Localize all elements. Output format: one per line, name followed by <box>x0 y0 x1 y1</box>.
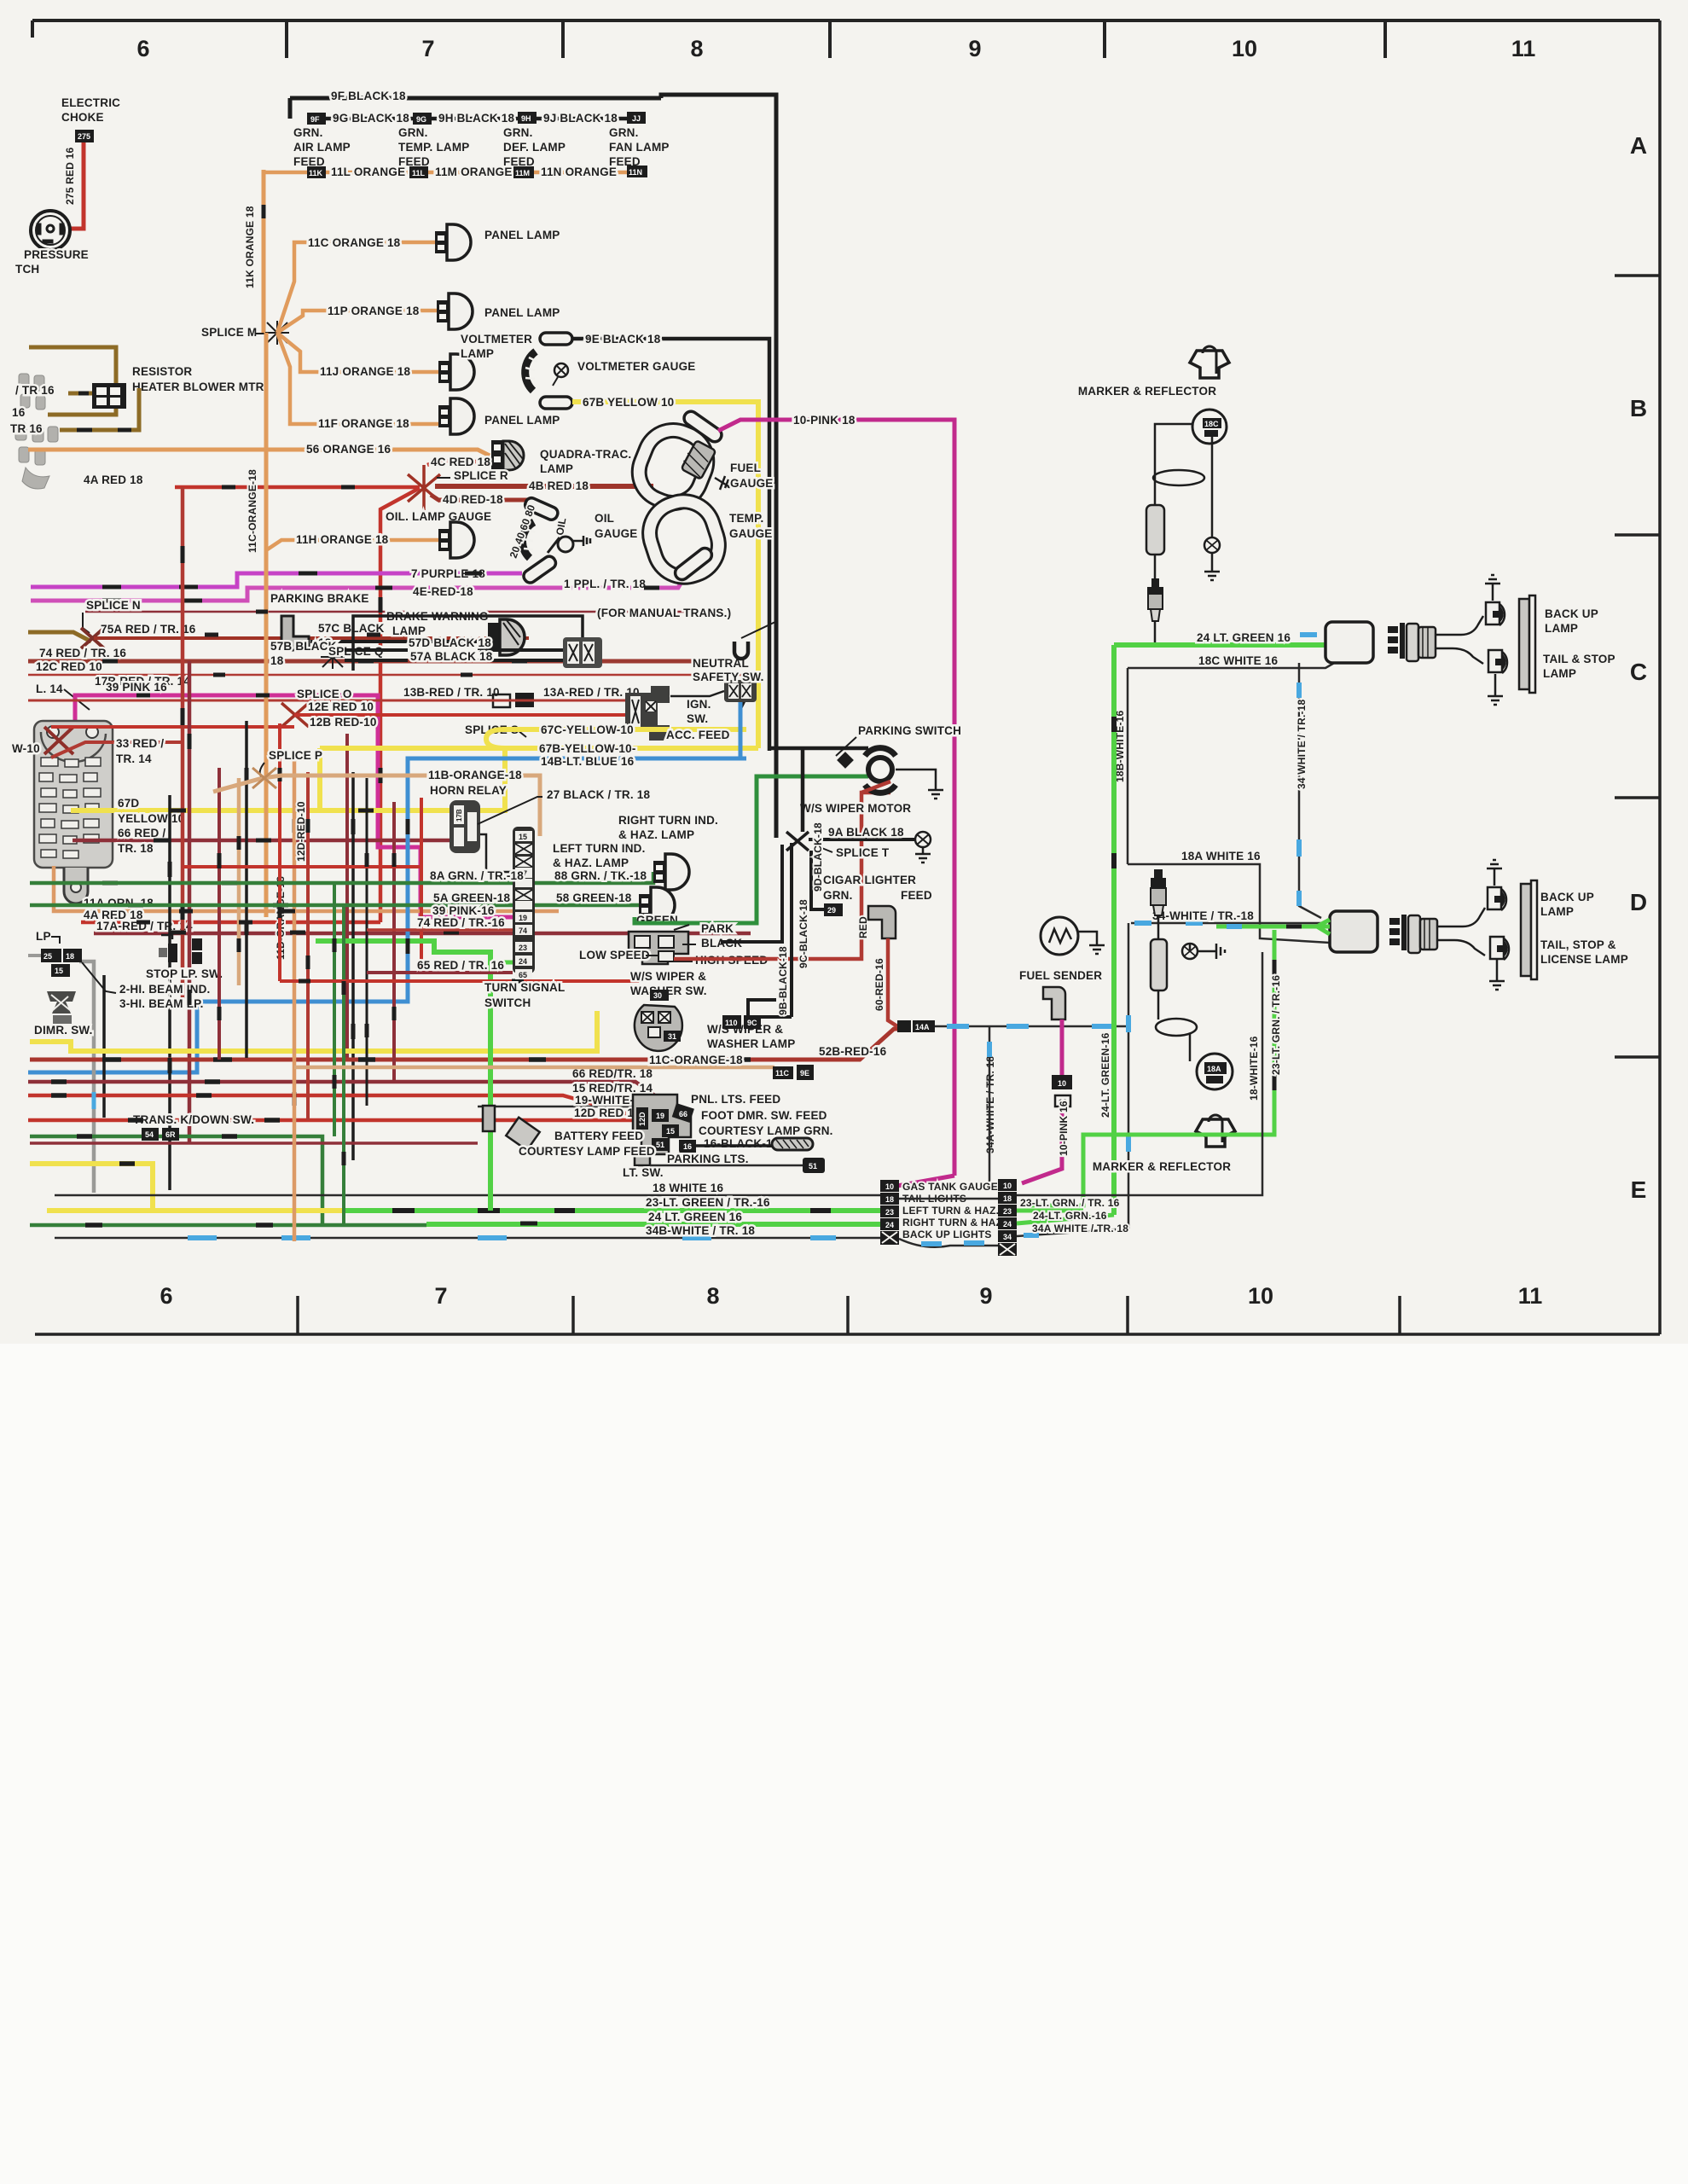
svg-text:LAMP: LAMP <box>1543 667 1576 680</box>
svg-text:8: 8 <box>706 1283 719 1309</box>
connector 18C in lamp <box>1203 418 1221 428</box>
svg-text:TAIL, STOP &: TAIL, STOP & <box>1540 938 1616 951</box>
svg-text:DEF. LAMP: DEF. LAMP <box>503 141 566 154</box>
voltmeter capsule 2 <box>540 397 572 409</box>
row C ground bottom <box>1494 674 1497 689</box>
svg-text:66 RED /: 66 RED / <box>118 827 165 839</box>
row C plug body <box>1407 624 1418 661</box>
wire red vertical x328 <box>278 723 281 981</box>
svg-text:11C: 11C <box>775 1069 790 1077</box>
svg-text:4B RED 18: 4B RED 18 <box>529 479 589 492</box>
svg-text:W-10: W-10 <box>12 742 40 755</box>
connector 9E <box>797 1065 814 1080</box>
wire marker right branch <box>1211 437 1214 537</box>
parking switch motor symbol <box>865 748 896 793</box>
connector 11L <box>409 166 428 178</box>
svg-text:HEATER BLOWER MTR.: HEATER BLOWER MTR. <box>132 380 268 393</box>
svg-text:PANEL LAMP: PANEL LAMP <box>484 229 560 241</box>
svg-text:275: 275 <box>78 132 90 141</box>
svg-text:18 WHITE 16: 18 WHITE 16 <box>653 1182 724 1194</box>
svg-text:OIL. LAMP GAUGE: OIL. LAMP GAUGE <box>386 510 491 523</box>
right tick D/E <box>1615 1055 1660 1059</box>
svg-text:OIL: OIL <box>595 512 614 525</box>
svg-text:8: 8 <box>690 36 703 61</box>
svg-text:67C-YELLOW-10: 67C-YELLOW-10 <box>541 723 634 736</box>
svg-text:FEED: FEED <box>293 155 325 168</box>
svg-text:33 RED /: 33 RED / <box>116 737 164 750</box>
svg-text:23-LT. GRN. / TR. 16: 23-LT. GRN. / TR. 16 <box>1020 1197 1120 1209</box>
svg-text:74: 74 <box>519 926 527 935</box>
gas tank gauge circle 18A <box>1197 1054 1233 1089</box>
row D ground top <box>1494 875 1496 886</box>
svg-text:D: D <box>1630 889 1647 915</box>
svg-text:BACK UP: BACK UP <box>1545 607 1598 620</box>
fusible link X on fuse panel <box>44 727 73 754</box>
horn relay <box>450 800 480 853</box>
svg-text:13A-RED / TR. 10: 13A-RED / TR. 10 <box>543 686 640 699</box>
right connector stack <box>998 1179 1017 1256</box>
wire 23 lt green tr 16 E row <box>345 1208 882 1213</box>
svg-text:YELLOW 10: YELLOW 10 <box>118 812 184 825</box>
manual trans fork <box>734 642 748 659</box>
row D bracket plate <box>1521 884 1531 976</box>
wire 74 red tr 16 <box>28 659 708 664</box>
connector 9G <box>413 113 432 125</box>
blue mark near connector C <box>1300 632 1317 637</box>
svg-text:9: 9 <box>968 36 981 61</box>
oil gauge ground <box>573 536 590 546</box>
svg-text:COURTESY LAMP FEED: COURTESY LAMP FEED <box>519 1145 655 1158</box>
wire 9F black 18 top run <box>290 95 776 838</box>
svg-text:& HAZ. LAMP: & HAZ. LAMP <box>618 828 694 841</box>
wire maroon vertical x257 <box>218 768 221 1060</box>
wire 57C black 18 <box>310 640 488 643</box>
row C plug prongs <box>1388 623 1405 659</box>
wire red horizontal y1016 <box>183 865 421 868</box>
wire 67D yellow 10 <box>71 748 505 810</box>
wire green park run <box>635 776 868 923</box>
svg-text:10: 10 <box>1248 1283 1273 1309</box>
connector box 13 small 1 <box>493 694 510 707</box>
splice P x <box>252 768 276 788</box>
svg-text:SPLICE T: SPLICE T <box>836 846 890 859</box>
wire 4B red 18 <box>435 484 653 489</box>
svg-text:12D-RED-10: 12D-RED-10 <box>295 801 307 862</box>
splice O <box>281 703 309 727</box>
wire red vertical 12D x361 <box>306 772 310 1120</box>
svg-text:LP: LP <box>36 930 51 943</box>
svg-text:COURTESY LAMP GRN.: COURTESY LAMP GRN. <box>699 1124 833 1137</box>
row D wires to lamps <box>1437 908 1485 926</box>
ignition switch <box>625 686 670 741</box>
svg-text:9C: 9C <box>747 1019 757 1027</box>
svg-text:11P ORANGE 18: 11P ORANGE 18 <box>328 305 420 317</box>
wire 23 lt grn tr 16 stub <box>1017 1209 1083 1213</box>
svg-text:15: 15 <box>519 833 527 841</box>
gas sender small circle <box>1182 944 1198 959</box>
wire 4C red 18 <box>427 462 490 465</box>
wire 57A black 18 <box>345 659 563 662</box>
wire 34A white stub <box>1017 1228 1128 1236</box>
svg-text:23-LT. GREEN / TR.-16: 23-LT. GREEN / TR.-16 <box>646 1196 770 1209</box>
svg-text:11: 11 <box>1518 1283 1543 1309</box>
connector 11K <box>307 166 326 178</box>
svg-text:GAUGE: GAUGE <box>595 527 638 540</box>
wire brown stub 1 <box>68 392 92 396</box>
svg-text:57B BLACK: 57B BLACK <box>270 640 337 653</box>
svg-text:15: 15 <box>666 1127 675 1136</box>
wire black vertical x289 <box>245 721 248 1058</box>
svg-text:9H BLACK 18: 9H BLACK 18 <box>438 112 515 125</box>
light switch assembly <box>483 1095 691 1165</box>
svg-text:54: 54 <box>145 1130 154 1139</box>
svg-text:DIMR. SW.: DIMR. SW. <box>34 1024 93 1037</box>
extra dash marks verticals <box>219 768 394 1165</box>
connector 12D rotated <box>636 1107 648 1130</box>
svg-text:FUEL: FUEL <box>730 462 761 474</box>
svg-text:HORN RELAY: HORN RELAY <box>430 784 507 797</box>
voltmeter gauge arc <box>525 351 536 391</box>
svg-text:11F ORANGE 18: 11F ORANGE 18 <box>318 417 409 430</box>
svg-text:TR 16: TR 16 <box>10 422 43 435</box>
top tick x1295 <box>1103 20 1106 58</box>
svg-text:SPLICE O: SPLICE O <box>297 688 352 700</box>
wire 24 lt green 16 row C <box>1114 642 1325 648</box>
wire 4A red 18 lower <box>81 921 380 925</box>
dash marks bottom left wires <box>51 1060 751 1225</box>
svg-text:7: 7 <box>421 36 434 61</box>
svg-text:SPLICE N: SPLICE N <box>86 599 141 612</box>
svg-text:15 RED/TR. 14: 15 RED/TR. 14 <box>572 1082 653 1095</box>
panel lamp 1 <box>435 224 471 260</box>
wire 17A red tr 14 <box>94 932 751 936</box>
wire 4D red 18 <box>431 495 528 500</box>
svg-text:6R: 6R <box>165 1130 176 1139</box>
parking brake symbol <box>281 616 309 650</box>
panel lamp 3 <box>438 398 474 434</box>
bottom tick x1641 <box>1398 1296 1401 1334</box>
top tick x660 <box>561 20 565 58</box>
svg-text:LAMP: LAMP <box>540 462 573 475</box>
wire 11H orange 18 <box>266 540 438 550</box>
svg-text:12C RED 10: 12C RED 10 <box>36 660 102 673</box>
wire red high speed <box>674 793 890 959</box>
wire 9A black 18 <box>809 838 914 841</box>
svg-text:57A BLACK 18: 57A BLACK 18 <box>410 650 493 663</box>
svg-text:10: 10 <box>885 1182 894 1191</box>
wire yellow bottom left pair <box>30 1011 597 1051</box>
svg-text:9B-BLACK-18: 9B-BLACK-18 <box>777 946 789 1015</box>
marker bulb plug <box>1147 578 1163 594</box>
wire black 9B vertical <box>753 843 792 1017</box>
svg-text:19: 19 <box>519 914 527 922</box>
wire 66 red tr 18 upper <box>73 839 478 843</box>
svg-text:12E RED 10: 12E RED 10 <box>308 700 374 713</box>
panel lamp voltmeter lamp <box>438 354 474 390</box>
svg-text:19: 19 <box>656 1112 664 1120</box>
svg-text:B: B <box>1630 395 1647 421</box>
wire 9G black 18 <box>326 117 414 121</box>
connector 16 <box>679 1140 696 1153</box>
svg-text:18: 18 <box>66 952 74 961</box>
wire 12D red 10 <box>28 1118 639 1123</box>
row D ground bottom <box>1496 959 1499 974</box>
oil gauge lamp capsule top <box>523 496 560 521</box>
svg-text:GRN.: GRN. <box>293 126 323 139</box>
oil gauge arc <box>523 522 534 558</box>
svg-text:TCH: TCH <box>15 263 39 276</box>
svg-text:110: 110 <box>725 1019 738 1027</box>
wire 11C orange 18 bottom row <box>294 1066 774 1070</box>
wire 19 white 16 <box>478 1106 654 1108</box>
connector 15 <box>662 1124 679 1137</box>
marker & reflector 2 clamp <box>1196 1119 1235 1147</box>
connector JJ <box>627 112 646 124</box>
svg-text:57D BLACK 18: 57D BLACK 18 <box>409 636 491 649</box>
wire green vertical x392 <box>333 883 336 1136</box>
row C backup bulb <box>1486 602 1505 625</box>
wire marker left branch <box>1155 424 1192 505</box>
svg-text:10: 10 <box>1232 36 1257 61</box>
svg-text:11K ORANGE 18: 11K ORANGE 18 <box>244 206 256 288</box>
oil gauge needle circle <box>558 537 573 552</box>
svg-text:VOLTMETER: VOLTMETER <box>461 333 532 346</box>
wire 4A red vertical <box>380 488 420 922</box>
wire 57 black riser <box>353 616 583 671</box>
svg-text:18: 18 <box>1003 1194 1012 1203</box>
wire 9J black 18 <box>537 117 628 121</box>
voltmeter lamp capsule <box>540 333 572 345</box>
wire marker plug to green <box>1154 621 1157 645</box>
svg-text:RESISTOR: RESISTOR <box>132 365 192 378</box>
svg-text:24: 24 <box>885 1221 894 1229</box>
svg-text:9H: 9H <box>521 114 531 123</box>
fuel sender elbow pipe <box>1043 987 1065 1019</box>
svg-text:34 WHITE / TR.-18: 34 WHITE / TR.-18 <box>1296 699 1308 789</box>
bottom tick x349 <box>296 1296 299 1334</box>
svg-text:TAIL & STOP: TAIL & STOP <box>1543 653 1615 665</box>
svg-text:4D RED-18: 4D RED-18 <box>443 493 503 506</box>
wire 88 grn tk 18 <box>535 872 653 883</box>
svg-text:9D-BLACK-18: 9D-BLACK-18 <box>812 822 824 892</box>
svg-text:67B YELLOW 10: 67B YELLOW 10 <box>583 396 674 409</box>
svg-text:17B: 17B <box>455 809 463 822</box>
wire 5A green 18 <box>30 903 513 908</box>
wiper washer switch <box>635 990 682 1051</box>
oil gauge assembly <box>508 496 638 584</box>
row C bracket plate <box>1519 599 1529 689</box>
svg-text:TURN SIGNAL: TURN SIGNAL <box>484 981 565 994</box>
wire 23 green vertical right <box>1020 930 1274 1205</box>
svg-text:1 PPL. / TR. 18: 1 PPL. / TR. 18 <box>564 578 646 590</box>
svg-text:L. 14: L. 14 <box>36 682 63 695</box>
wire brown into splice N <box>28 632 91 642</box>
svg-text:LEFT TURN IND.: LEFT TURN IND. <box>553 842 646 855</box>
parking switch diamond <box>837 752 854 769</box>
svg-text:GRN.: GRN. <box>398 126 428 139</box>
svg-text:11N ORANGE: 11N ORANGE <box>541 166 617 178</box>
svg-text:PANEL LAMP: PANEL LAMP <box>484 414 560 427</box>
wire 67B yellow 10 <box>572 402 758 748</box>
connector 29 <box>824 903 843 916</box>
svg-text:IGN.: IGN. <box>687 698 711 711</box>
wire blue from 14A <box>935 1025 1128 1028</box>
connector 6R <box>162 1128 179 1141</box>
voltmeter gauge needle symbol <box>554 363 568 377</box>
marker ellipse <box>1153 470 1204 485</box>
wire to 51 connector <box>650 1165 803 1167</box>
svg-text:23-LT. GRN. / TR.-16: 23-LT. GRN. / TR.-16 <box>1270 975 1282 1075</box>
wire park black <box>721 845 782 942</box>
marker cylinder <box>1146 505 1164 555</box>
connector 66 <box>672 1103 694 1123</box>
brake warning lamp <box>488 619 525 655</box>
connector 51a <box>652 1138 669 1151</box>
svg-text:GRN.: GRN. <box>609 126 639 139</box>
svg-text:GAS TANK GAUGE: GAS TANK GAUGE <box>902 1181 998 1193</box>
svg-text:11B-ORANGE-18: 11B-ORANGE-18 <box>428 769 522 781</box>
svg-text:6: 6 <box>136 36 149 61</box>
svg-text:FEED: FEED <box>901 889 932 902</box>
wire 24 lt green 16 E row <box>426 1222 882 1227</box>
svg-text:7: 7 <box>434 1283 447 1309</box>
wire green fork into D connector <box>1216 920 1330 934</box>
wire 15 red tr 14 <box>28 1095 664 1124</box>
wire 13A red tr 10 <box>367 700 625 702</box>
svg-text:PARK: PARK <box>701 922 734 935</box>
svg-text:SPLICE R: SPLICE R <box>454 469 508 482</box>
svg-text:LAMP: LAMP <box>461 347 494 360</box>
neutral safety switch <box>724 680 757 709</box>
wire 11L orange row <box>264 171 308 175</box>
svg-text:11H ORANGE 18: 11H ORANGE 18 <box>296 533 389 546</box>
svg-text:SW.: SW. <box>687 712 708 725</box>
svg-text:11N: 11N <box>629 168 642 177</box>
svg-text:LT. SW.: LT. SW. <box>623 1166 664 1179</box>
wire 9E black 18 <box>572 339 769 751</box>
wire 12B red 10 <box>51 725 294 729</box>
wire 66 red tr 18 lower <box>28 1082 674 1109</box>
svg-text:27 BLACK / TR. 18: 27 BLACK / TR. 18 <box>547 788 650 801</box>
svg-text:FOOT DMR. SW. FEED: FOOT DMR. SW. FEED <box>701 1109 827 1122</box>
wire yellow vertical x375 <box>320 748 505 810</box>
svg-text:16: 16 <box>683 1142 692 1151</box>
top tick x973 <box>828 20 832 58</box>
wire 39 pink 16 <box>75 695 516 917</box>
manual trans connector <box>563 637 602 668</box>
top left end tick <box>31 20 34 38</box>
svg-text:5A GREEN-18: 5A GREEN-18 <box>433 892 511 904</box>
pressure switch <box>31 211 70 250</box>
wire 11C orange 18 to panel lamp <box>277 242 435 333</box>
splice T <box>786 832 809 851</box>
wire blue from neutral safety down <box>739 702 743 758</box>
svg-text:34A WHITE / TR. 18: 34A WHITE / TR. 18 <box>1032 1223 1128 1234</box>
wire 52B red 16 <box>30 1029 901 1060</box>
right tick B/C <box>1615 533 1660 537</box>
top tick x1624 <box>1383 20 1387 58</box>
top tick x336 <box>285 20 288 58</box>
svg-text:4E-RED-18: 4E-RED-18 <box>413 585 473 598</box>
fuel gauge assembly (chain links) <box>630 421 727 584</box>
wire 11D orange vertical <box>293 759 297 1241</box>
svg-text:51: 51 <box>656 1141 664 1149</box>
svg-text:10: 10 <box>1058 1079 1066 1088</box>
wire black to parking switch <box>769 748 868 832</box>
wire 58 green 18 <box>535 903 639 908</box>
svg-text:TEMP.: TEMP. <box>729 512 764 525</box>
svg-text:GRN.: GRN. <box>503 126 533 139</box>
svg-text:4C RED 18: 4C RED 18 <box>431 456 490 468</box>
right turn lamp <box>639 887 675 923</box>
wire red vertical x494 <box>420 798 423 968</box>
svg-text:SWITCH: SWITCH <box>484 996 531 1009</box>
svg-text:12D: 12D <box>638 1112 647 1126</box>
connector box 13 small 2 <box>515 693 534 707</box>
svg-text:15: 15 <box>55 967 63 975</box>
svg-text:BACK UP LIGHTS: BACK UP LIGHTS <box>902 1228 992 1240</box>
wire between stacks <box>899 1239 998 1247</box>
connector 11C <box>773 1066 793 1079</box>
wire 34 white tr 18 vertical <box>1299 663 1321 918</box>
fuel gauge ground squiggle <box>715 476 731 490</box>
connector 11M <box>513 166 534 178</box>
wire 4A red 18 feed to splice R <box>175 485 420 490</box>
connector 9F <box>307 113 326 125</box>
svg-text:RIGHT TURN & HAZ: RIGHT TURN & HAZ <box>902 1217 1002 1228</box>
connector 9H <box>518 112 537 124</box>
svg-text:SPLICE P: SPLICE P <box>269 749 322 762</box>
svg-text:E: E <box>1631 1176 1647 1203</box>
wire 10 pink into left stack <box>897 1176 954 1186</box>
svg-text:13B-RED / TR. 10: 13B-RED / TR. 10 <box>403 686 500 699</box>
svg-text:9G: 9G <box>416 115 426 124</box>
svg-text:9G BLACK 18: 9G BLACK 18 <box>333 112 409 125</box>
wire 33 red tr 14 <box>51 742 183 758</box>
svg-text:W/S WIPER &: W/S WIPER & <box>630 970 706 983</box>
wire 14B lt blue 16 <box>28 758 746 1072</box>
svg-text:11L ORANGE 18: 11L ORANGE 18 <box>331 166 422 178</box>
wire 9D black <box>811 851 824 909</box>
heater blower resistor connector <box>92 383 126 409</box>
svg-text:9F: 9F <box>310 115 320 124</box>
svg-text:24: 24 <box>519 957 527 966</box>
svg-text:GAUGE: GAUGE <box>729 527 773 540</box>
blue mark near D connector <box>1227 924 1242 929</box>
svg-text:34: 34 <box>1003 1233 1012 1241</box>
wire marker down to plug <box>1154 555 1157 578</box>
svg-text:34-WHITE / TR.-18: 34-WHITE / TR.-18 <box>1152 909 1254 922</box>
connector 110 <box>722 1015 741 1029</box>
wire 34A white vertical <box>989 1026 991 1182</box>
svg-text:8A GRN. / TR.-18: 8A GRN. / TR.-18 <box>430 869 524 882</box>
dash marks horizontal rows left <box>102 487 537 1223</box>
connector 19 <box>652 1109 669 1122</box>
wire 11P orange 18 <box>277 311 437 333</box>
svg-text:TEMP. LAMP: TEMP. LAMP <box>398 141 470 154</box>
left turn lamp <box>653 854 689 890</box>
svg-text:WASHER LAMP: WASHER LAMP <box>707 1037 795 1050</box>
svg-text:52B-RED-16: 52B-RED-16 <box>819 1045 887 1058</box>
wire brown middle <box>48 409 116 415</box>
gas tank sender plug <box>1151 869 1166 915</box>
svg-text:25: 25 <box>44 952 52 961</box>
svg-text:9F BLACK 18: 9F BLACK 18 <box>331 90 406 102</box>
wire 11K orange vertical <box>262 170 266 333</box>
connector 11N <box>627 166 647 177</box>
svg-text:60-RED-16: 60-RED-16 <box>873 958 885 1011</box>
svg-text:16-BLACK-18: 16-BLACK-18 <box>704 1137 780 1150</box>
